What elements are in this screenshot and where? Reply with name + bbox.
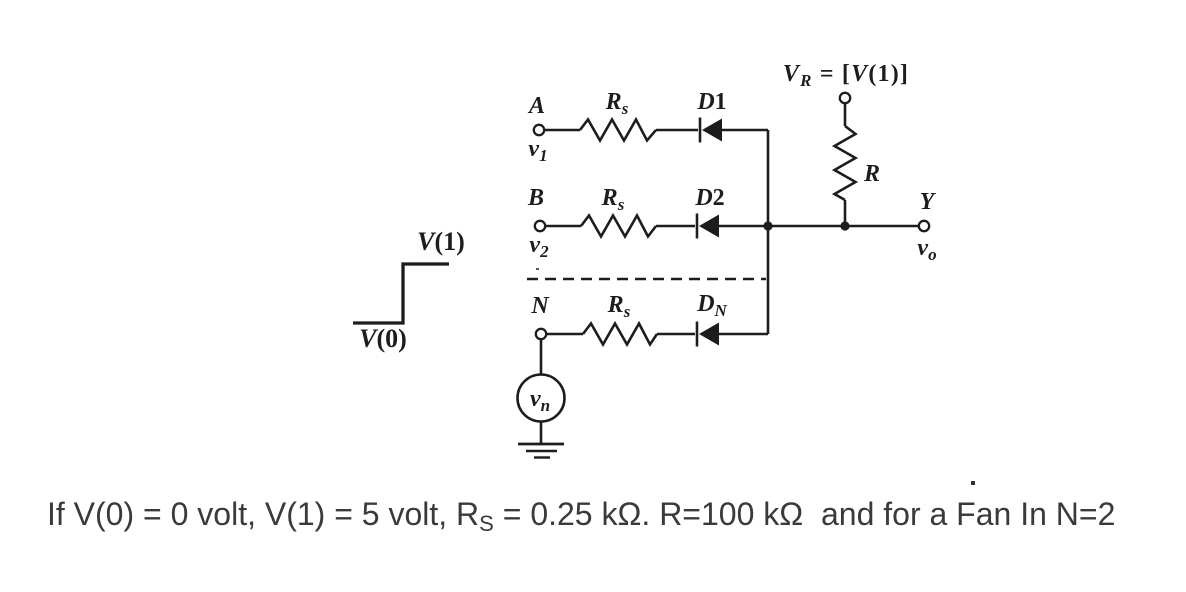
svg-text:Rs: Rs	[601, 185, 625, 214]
svg-text:D1: D1	[696, 89, 726, 115]
svg-text:v2: v2	[529, 232, 549, 261]
svg-text:Y: Y	[920, 189, 937, 215]
svg-text:D2: D2	[694, 185, 724, 211]
svg-text:V(1): V(1)	[417, 227, 465, 256]
svg-text:A: A	[527, 93, 545, 119]
svg-text:R: R	[863, 161, 880, 187]
svg-text:vo: vo	[917, 235, 936, 264]
svg-text:V(0): V(0)	[359, 324, 407, 353]
svg-text:Rs: Rs	[607, 292, 631, 321]
svg-text:v1: v1	[528, 136, 547, 165]
svg-text:VR = [V(1)]: VR = [V(1)]	[783, 61, 909, 90]
svg-text:vn: vn	[530, 386, 550, 415]
svg-text:Rs: Rs	[605, 89, 629, 118]
svg-text:B: B	[527, 185, 544, 211]
svg-text:DN: DN	[696, 291, 727, 320]
svg-text:N: N	[530, 293, 550, 319]
